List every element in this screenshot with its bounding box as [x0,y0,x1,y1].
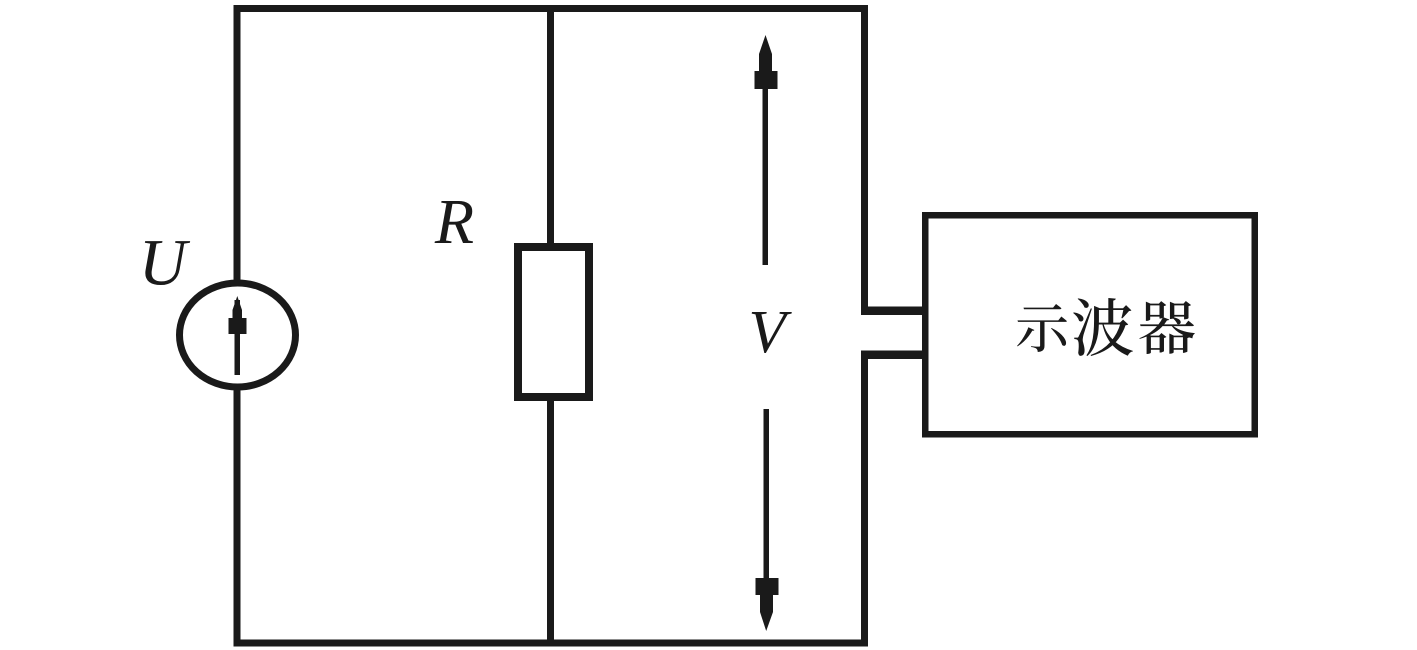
wire right upper [861,5,868,315]
label V [752,312,792,353]
resistor R body [518,247,589,397]
label R [435,201,473,243]
source U circle [180,283,296,387]
V arrow up [755,35,778,265]
label shiboqi char 波 [1073,298,1133,356]
oscilloscope box [925,215,1255,434]
wire top [234,5,869,12]
wire middle lower [547,399,554,640]
wire right lower [861,351,868,647]
stub wire bottom to oscilloscope [861,351,929,360]
label U [145,241,190,285]
source U arrow [229,296,247,375]
wire left lower [234,387,241,647]
label shiboqi char 器 [1139,301,1194,354]
V arrow down [756,409,779,631]
wire left upper [234,5,241,284]
wire middle upper [547,12,554,245]
label shiboqi char 示 [1017,304,1067,352]
wire bottom [234,640,869,647]
stub wire top to oscilloscope [861,307,929,316]
